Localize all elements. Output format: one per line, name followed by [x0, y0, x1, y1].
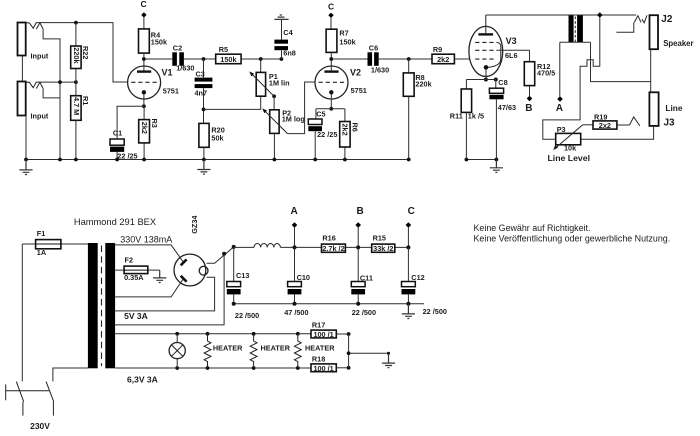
capacitor C4 with ground above — [274, 15, 288, 19]
capacitor C5 — [315, 109, 317, 119]
resistor R18 — [311, 364, 336, 372]
svg-text:100 /1: 100 /1 — [313, 330, 333, 339]
wire mains left — [21, 244, 23, 381]
svg-text:100 /1: 100 /1 — [313, 364, 333, 373]
wire grid row y82 — [37, 81, 76, 83]
svg-text:C13: C13 — [236, 271, 249, 280]
wire V3 screen to R12 — [496, 49, 529, 51]
jack J1b input body — [18, 82, 26, 116]
svg-text:J2: J2 — [661, 14, 673, 25]
wire P2 wiper to V2 grid — [288, 82, 316, 134]
svg-text:5V 3A: 5V 3A — [124, 311, 148, 321]
node A top — [557, 96, 563, 102]
resistor R5 — [216, 54, 241, 64]
svg-text:Line: Line — [665, 103, 682, 113]
jack J2 tip contact — [634, 16, 641, 23]
jack J3 body — [649, 92, 658, 126]
svg-text:C1: C1 — [113, 128, 122, 137]
svg-text:C10: C10 — [297, 273, 310, 282]
output transformer OT — [569, 16, 574, 43]
svg-text:6n8: 6n8 — [283, 48, 296, 57]
capacitor C6 — [368, 52, 373, 66]
fuse F2 — [115, 269, 160, 271]
svg-text:Keine Veröffentlichung oder ge: Keine Veröffentlichung oder gewerbliche … — [474, 233, 671, 243]
wire R5 to C4 node — [241, 58, 281, 60]
svg-text:220k: 220k — [72, 47, 81, 64]
V2 cathode junction — [329, 107, 333, 111]
wire between jacks — [21, 56, 23, 82]
svg-text:HEATER: HEATER — [305, 344, 335, 353]
node diamond OT secondary — [597, 12, 603, 18]
wire top rail jack1 to V1 grid — [37, 23, 128, 82]
capacitor C2 — [172, 52, 177, 66]
wire jack sleeve down — [25, 116, 27, 160]
svg-text:6L6: 6L6 — [505, 51, 518, 60]
svg-text:Keine Gewähr auf Richtigkeit.: Keine Gewähr auf Richtigkeit. — [474, 223, 591, 233]
power transformer PT — [88, 243, 98, 368]
node B top — [527, 96, 533, 102]
fuse F1 — [22, 243, 88, 245]
jack J1 tip contact — [26, 22, 37, 28]
svg-text:C4: C4 — [283, 28, 293, 37]
capacitor C11 — [357, 247, 359, 281]
V1 cathode junction — [142, 104, 146, 108]
svg-text:2.7k /2: 2.7k /2 — [322, 244, 344, 253]
svg-text:J3: J3 — [664, 118, 676, 129]
wire GZ34 cathode to node (B+) — [207, 247, 234, 263]
svg-text:R11: R11 — [450, 111, 463, 120]
resistor R1 — [75, 82, 77, 159]
svg-text:330V 138mA: 330V 138mA — [120, 234, 172, 244]
svg-text:Speaker: Speaker — [663, 39, 693, 48]
GZ34 filament — [199, 266, 208, 275]
potentiometer P3 — [556, 133, 581, 144]
svg-text:P3: P3 — [557, 125, 566, 134]
wire plate V1 to C2 — [146, 58, 173, 60]
ground F2 — [153, 270, 166, 282]
resistor R3 — [143, 106, 145, 159]
heater top rail — [115, 333, 311, 335]
svg-text:50k: 50k — [211, 134, 224, 143]
svg-text:47 /500: 47 /500 — [284, 308, 308, 317]
svg-text:R5: R5 — [219, 45, 228, 54]
resistor R12 — [529, 50, 531, 96]
svg-text:1M log: 1M log — [282, 115, 305, 124]
svg-text:C5: C5 — [316, 109, 325, 118]
jack J1 shorting contact wire — [43, 29, 60, 82]
svg-text:A: A — [556, 103, 563, 114]
wire OT to node A — [559, 42, 561, 96]
ground rail top section — [26, 159, 409, 161]
svg-text:C: C — [408, 206, 415, 217]
svg-text:V2: V2 — [350, 68, 361, 78]
resistor R9 — [432, 54, 454, 64]
wire C3 bottom to P1 bottom — [204, 108, 262, 110]
svg-text:Hammond 291 BEX: Hammond 291 BEX — [74, 217, 156, 227]
filter ground rail — [234, 303, 424, 305]
svg-text:150k: 150k — [151, 37, 168, 46]
svg-text:2k2: 2k2 — [140, 122, 149, 134]
svg-text:R16: R16 — [322, 234, 335, 243]
svg-text:R15: R15 — [373, 234, 386, 243]
svg-text:150k: 150k — [339, 38, 356, 47]
svg-text:6,3V 3A: 6,3V 3A — [127, 374, 158, 384]
junction dots input row — [58, 80, 62, 84]
wire P3 wiper to R19 — [583, 124, 593, 126]
svg-text:5751: 5751 — [163, 86, 179, 95]
svg-text:22 /25: 22 /25 — [317, 130, 337, 139]
svg-text:1k /5: 1k /5 — [468, 111, 484, 120]
wire OT top tap to line out (with hop) — [543, 17, 600, 139]
svg-text:22 /500: 22 /500 — [235, 311, 259, 320]
svg-text:1/630: 1/630 — [371, 66, 389, 75]
svg-text:HEATER: HEATER — [213, 344, 243, 353]
svg-text:R6: R6 — [350, 123, 359, 132]
ground under C12 — [402, 304, 415, 319]
V3 cathode junctions — [484, 78, 488, 82]
svg-text:2x2: 2x2 — [599, 121, 611, 130]
svg-text:33k /2: 33k /2 — [373, 244, 393, 253]
ground heater — [382, 353, 395, 367]
potentiometer P1 — [260, 59, 262, 109]
svg-text:C11: C11 — [360, 274, 373, 283]
potentiometer P2 — [270, 110, 279, 134]
resistor R4 — [139, 29, 150, 53]
svg-text:C: C — [141, 0, 147, 9]
wire V2 plate to C6 — [333, 58, 367, 60]
svg-text:47/63: 47/63 — [498, 103, 516, 112]
svg-text:A: A — [291, 206, 298, 217]
resistor R22 — [75, 23, 77, 83]
svg-text:R18: R18 — [312, 354, 325, 363]
ground under R20 — [197, 160, 210, 175]
svg-text:GZ34: GZ34 — [190, 215, 199, 234]
svg-text:V1: V1 — [162, 68, 173, 78]
svg-text:R9: R9 — [433, 45, 442, 54]
resistor R8 — [408, 59, 410, 160]
wire 5V winding top — [115, 277, 215, 311]
jack J2 body — [650, 15, 659, 49]
resistor R17 — [311, 330, 336, 338]
heater bottom rail — [115, 367, 311, 369]
svg-text:B: B — [525, 103, 532, 114]
svg-text:150k: 150k — [220, 55, 237, 64]
jack J3 tip contact — [629, 117, 640, 126]
svg-text:470/5: 470/5 — [537, 69, 555, 78]
triode V1 — [128, 66, 161, 99]
svg-text:C8: C8 — [498, 78, 507, 87]
wire C2 to R5 — [184, 58, 216, 60]
B+ rail with choke — [234, 246, 254, 248]
svg-text:22 /25: 22 /25 — [117, 152, 137, 161]
capacitor C1 — [110, 139, 124, 145]
heater resistor 1 — [204, 334, 211, 368]
svg-text:F1: F1 — [37, 229, 46, 238]
svg-text:220k: 220k — [415, 79, 432, 88]
heater resistor 2 — [250, 334, 257, 368]
jack J1b shorting contact wire — [43, 82, 60, 159]
ground input — [19, 160, 32, 175]
wire V3 plate to OT and J2 — [486, 14, 636, 16]
svg-text:22 /500: 22 /500 — [352, 308, 376, 317]
rectifier GZ34 — [174, 254, 206, 286]
capacitor C13 — [233, 247, 235, 282]
svg-text:0.35A: 0.35A — [124, 273, 144, 282]
resistor R6 — [344, 109, 346, 160]
svg-text:R3: R3 — [150, 119, 159, 128]
svg-text:R17: R17 — [312, 321, 325, 330]
resistor R11 — [465, 80, 467, 160]
humdinger junction to ground — [349, 334, 389, 368]
svg-text:1M lin: 1M lin — [269, 79, 290, 88]
resistor R16 — [322, 244, 346, 252]
wire switch to PT primary — [53, 368, 88, 381]
pilot lamp — [176, 334, 178, 368]
capacitor C8 — [495, 80, 497, 89]
svg-text:B: B — [357, 206, 364, 217]
wire OT right to jacks — [591, 42, 651, 81]
heater resistor 3 — [294, 334, 301, 368]
svg-text:C3: C3 — [196, 69, 205, 78]
jack J1 input body — [18, 23, 26, 56]
capacitor C3 — [203, 59, 205, 77]
wire P1 wiper to P2 top — [273, 96, 275, 110]
mains switch — [6, 382, 54, 416]
svg-text:230V: 230V — [30, 421, 50, 431]
svg-text:HEATER: HEATER — [261, 344, 291, 353]
inductor choke — [254, 244, 280, 248]
wire J2 to J3 — [650, 49, 652, 92]
jack J1b tip contact — [26, 82, 37, 88]
svg-text:R19: R19 — [594, 112, 607, 121]
svg-text:C2: C2 — [173, 44, 182, 53]
wire J3 sleeve to P3 — [581, 126, 654, 139]
svg-text:Line Level: Line Level — [548, 153, 591, 163]
svg-text:2k2: 2k2 — [341, 124, 350, 136]
svg-text:R22: R22 — [81, 46, 90, 59]
svg-text:C6: C6 — [369, 44, 378, 53]
capacitor C12 — [407, 247, 409, 281]
wire tap to GZ34 anode 2 — [115, 279, 183, 297]
svg-text:R7: R7 — [339, 29, 348, 38]
wire 5V winding bottom — [115, 254, 224, 325]
svg-text:F2: F2 — [125, 255, 134, 264]
svg-text:22 /500: 22 /500 — [423, 307, 447, 316]
svg-text:1/630: 1/630 — [176, 64, 194, 73]
ground rail V3 cathode — [466, 159, 496, 161]
wire C6 to R9 — [379, 58, 432, 60]
svg-text:10k: 10k — [564, 143, 577, 152]
beam tetrode V3 — [469, 26, 503, 76]
svg-text:C12: C12 — [411, 273, 424, 282]
svg-text:C: C — [328, 1, 334, 11]
triode V2 — [315, 66, 348, 99]
svg-text:Input: Input — [31, 111, 49, 120]
capacitor C10 — [294, 247, 296, 281]
wire 330V tap to GZ34 anode 1 — [115, 245, 183, 262]
svg-text:5751: 5751 — [351, 86, 367, 95]
svg-text:4.7 M: 4.7 M — [72, 97, 81, 115]
svg-text:2k2: 2k2 — [437, 55, 449, 64]
resistor R20 — [199, 123, 209, 147]
svg-text:4n7: 4n7 — [195, 88, 208, 97]
svg-text:1A: 1A — [37, 248, 47, 257]
ground under C8 — [490, 160, 503, 173]
resistor R15 — [372, 244, 395, 252]
svg-text:Input: Input — [31, 52, 49, 61]
svg-text:R1: R1 — [81, 96, 90, 105]
resistor R19 — [593, 121, 617, 129]
resistor R7 — [326, 29, 337, 52]
svg-text:V3: V3 — [506, 36, 517, 46]
